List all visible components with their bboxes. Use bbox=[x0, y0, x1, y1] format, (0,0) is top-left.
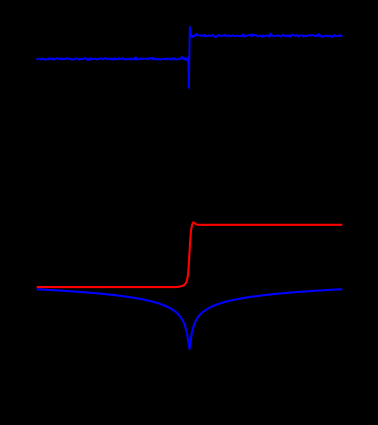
bottom smooth step trace (red) bbox=[37, 223, 343, 288]
bottom log-error cusp trace (blue) bbox=[37, 289, 343, 349]
top noisy step signal trace (blue) bbox=[37, 27, 343, 88]
